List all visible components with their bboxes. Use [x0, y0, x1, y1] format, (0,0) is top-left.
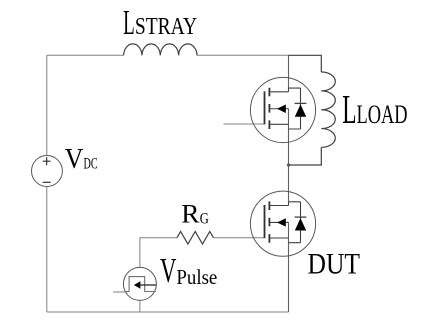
transistor T1 gate bar [264, 91, 266, 124]
wire bottom rail [47, 311, 289, 313]
wire top FET drain [288, 55, 290, 88]
V_Pulse step waveform [125, 277, 155, 292]
wire R_G to DUT gate [213, 237, 264, 239]
diode D2 [300, 202, 302, 243]
source V_DC [32, 156, 63, 187]
wire left rail lower [46, 187, 48, 313]
V_DC plus [43, 157, 51, 165]
inductor L_LOAD [289, 55, 336, 165]
wire left rail upper [46, 55, 48, 155]
inductor L_STRAY [124, 44, 197, 55]
transistor DUT drain step [269, 202, 300, 206]
V_DC circle [32, 156, 63, 187]
transistor T1 circle [250, 77, 315, 142]
svg-text:V: V [160, 251, 177, 290]
wire gate stub of top FET [224, 123, 265, 125]
transistor DUT circle [250, 191, 315, 256]
svg-text:G: G [200, 211, 209, 228]
V_Pulse circle [123, 267, 156, 300]
transistor T1 channel bars [268, 88, 270, 129]
op: top MOSFET with body diode [250, 77, 315, 142]
resistor R_G [177, 231, 213, 244]
transistor T1 source leads [269, 124, 300, 129]
svg-text:STRAY: STRAY [135, 14, 197, 40]
transistor T1 drain step [269, 88, 300, 92]
source V_Pulse [113, 267, 156, 300]
label V_DC [65, 144, 98, 175]
svg-text:LOAD: LOAD [357, 99, 408, 129]
transistor T1 middle lead + arrow [269, 108, 288, 110]
wire mid vertical between transistors [288, 109, 290, 202]
wire top left [47, 54, 124, 56]
svg-text:R: R [181, 200, 200, 229]
svg-text:DUT: DUT [308, 248, 361, 280]
V_DC minus [43, 181, 51, 183]
svg-text:DC: DC [84, 156, 98, 173]
label L_LOAD [342, 87, 407, 132]
diode D1 [300, 88, 302, 129]
transistor DUT source leads [269, 238, 300, 243]
junction node [287, 163, 290, 166]
wire V_Pulse bottom lead [139, 300, 141, 312]
label R_G [181, 200, 209, 229]
transistor DUT gate bar [264, 205, 266, 238]
transistor DUT middle lead + arrow [269, 221, 288, 223]
wire DUT source to bottom rail [288, 222, 290, 312]
V_Pulse left stub [113, 291, 125, 293]
label L_STRAY [123, 3, 197, 42]
label V_Pulse [160, 251, 217, 290]
transistor DUT channel bars [268, 201, 270, 242]
wire top right [197, 54, 289, 56]
transistor DUT MOSFET with body diode [250, 191, 315, 256]
svg-text:L: L [123, 3, 135, 42]
svg-text:L: L [342, 87, 356, 132]
svg-text:V: V [65, 144, 84, 175]
wire V_Pulse to R_G [140, 238, 177, 268]
svg-text:Pulse: Pulse [176, 265, 217, 289]
V_Pulse arrow [140, 284, 156, 286]
